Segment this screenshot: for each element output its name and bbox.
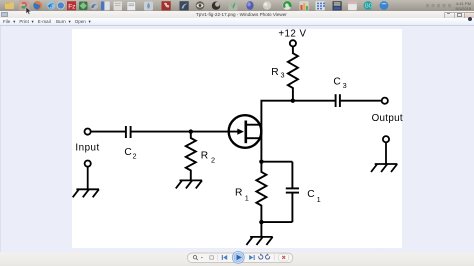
terminal: input-side ground	[85, 161, 91, 190]
svg-text:3: 3	[281, 70, 285, 79]
ground below R2	[176, 180, 202, 188]
svg-text:Input: Input	[75, 142, 99, 153]
svg-text:R: R	[235, 187, 242, 198]
svg-text:C: C	[307, 189, 314, 200]
wire: Input terminal to C2	[91, 131, 125, 133]
mouse cursor	[26, 7, 31, 15]
resistor R2	[186, 132, 196, 181]
svg-text:1: 1	[245, 193, 249, 202]
wire: drain up and across to C3	[261, 101, 335, 162]
capacitor C1	[286, 162, 299, 222]
terminal: output-side ground	[383, 136, 389, 164]
svg-text:3: 3	[343, 81, 347, 90]
svg-text:C: C	[124, 147, 131, 158]
label R2	[201, 150, 215, 164]
wire: node to ground stem	[260, 222, 262, 237]
label Input	[75, 142, 99, 153]
svg-text:R: R	[271, 67, 278, 78]
node: source junction	[259, 160, 263, 164]
capacitor C3	[336, 94, 340, 107]
svg-text:R: R	[201, 150, 208, 161]
svg-text:1: 1	[317, 195, 321, 204]
resistor R3	[288, 46, 298, 100]
svg-text:2: 2	[211, 155, 215, 164]
wire: R1 bottom to C1 bottom	[261, 221, 292, 223]
wire: C3 to Output	[341, 100, 382, 102]
white image	[72, 29, 402, 248]
terminal: Input	[85, 129, 91, 135]
node: drain/R3 junction	[291, 99, 295, 103]
title bar	[0, 11, 474, 18]
svg-text:Output: Output	[372, 113, 403, 124]
svg-text:+12 V: +12 V	[278, 28, 306, 39]
wire: C2 to gate	[131, 131, 238, 133]
svg-text:C: C	[333, 77, 340, 88]
taskbar	[0, 0, 474, 11]
label R1	[235, 187, 249, 202]
label R3	[271, 67, 284, 79]
label C1	[307, 189, 320, 204]
transistor Q1 (n-JFET)	[229, 115, 262, 148]
node: R1 bottom junction	[259, 220, 263, 224]
resistor R1	[256, 162, 266, 222]
ground below Input	[73, 189, 99, 197]
menu bar	[0, 18, 474, 27]
label +12 V	[278, 28, 306, 39]
node: gate junction	[189, 129, 193, 133]
ground below Output	[371, 164, 397, 172]
window buttons	[444, 12, 455, 19]
label C2	[124, 147, 136, 160]
label Output	[372, 113, 403, 124]
bottom chrome	[0, 252, 474, 266]
svg-text:2: 2	[133, 151, 137, 160]
ground below R1	[246, 237, 272, 245]
capacitor C2	[126, 126, 131, 138]
terminal: Output	[382, 98, 388, 104]
wire: source node to C1 branch (top)	[261, 161, 292, 163]
terminal: +12 V	[290, 40, 296, 46]
label C3	[333, 77, 346, 91]
